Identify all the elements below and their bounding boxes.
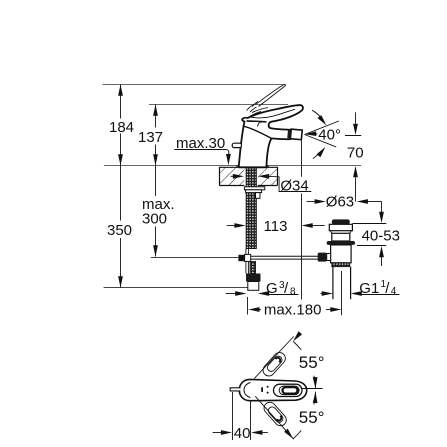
mounting nut [246,190,262,193]
svg-text:Ø63: Ø63 [326,194,354,211]
pull rod knob on left [232,143,241,147]
lever/body joint line [247,121,267,122]
dimension 137/max300 line [155,105,157,257]
lower arc [314,392,316,405]
dimension Ø34 arrows at deck [233,174,244,179]
body outline plan [239,379,306,400]
dimension 70 [355,112,357,123]
svg-text:184: 184 [109,119,134,136]
grip mid [279,386,299,395]
faucet body side view [239,105,303,167]
pull rod below shank [245,249,247,274]
svg-text:8: 8 [290,287,296,298]
spout joint arc [244,383,251,398]
threaded shank [246,167,256,248]
hose nut G3/8 [246,274,261,282]
mounting washer [244,187,264,190]
horizontal rod to waste [251,255,331,257]
deck slab hatched [220,167,278,185]
svg-text:300: 300 [142,211,167,228]
G1 1/4 arrows [321,293,323,295]
dimension 184/350 line [120,85,122,288]
svg-text:137: 137 [138,129,163,146]
svg-text:70: 70 [347,145,364,162]
tailpipe centerline [341,271,343,315]
spout swivel curved arrows [312,110,324,122]
dimension 40 plan [232,392,234,440]
dimension 113 [227,225,235,227]
handle detail lines [249,108,296,127]
grip hole [283,387,298,393]
reference line 350 bottom [104,287,252,289]
spout nub plan [230,388,240,391]
grip outer [274,384,303,396]
reference line max300 bottom [151,257,239,259]
actuator port [327,254,331,261]
faucet base flare [237,166,269,168]
G3/8 arrows [226,293,236,295]
flange seal [327,241,355,245]
40° spout angle annotation [305,121,339,147]
55° swing annotation [254,337,293,379]
reference line top (raised lever height) [103,84,285,86]
tailpipe [332,267,334,300]
indicator tick and dots [261,387,263,392]
neck [331,231,352,234]
svg-text:113: 113 [264,218,288,235]
svg-text:350: 350 [107,222,132,239]
phantom grip upper [261,350,288,378]
dimension 40-53 [381,202,383,213]
actuator knob [318,253,327,262]
spout projection extension line [301,140,303,176]
threads [332,263,350,267]
phantom raised lever [247,85,286,112]
dimension Ø63 [307,201,315,203]
svg-text:40°: 40° [318,126,341,143]
body-spout front edge curve [244,126,271,138]
nut tab [256,193,261,199]
centerline right of grip [301,388,322,390]
reference line handle top [149,104,288,106]
svg-text:55°: 55° [299,353,325,372]
svg-text:40-53: 40-53 [362,228,400,245]
dimension max.180 [247,297,249,315]
svg-text:4: 4 [391,286,397,297]
svg-text:max.180: max.180 [264,302,322,319]
reference line deck level [104,165,361,167]
pop-up waste assembly [318,219,355,315]
upper body [332,233,350,241]
lower body [331,245,352,263]
knob body [329,224,352,230]
aerator [287,129,302,140]
phantom grip lower [262,400,289,428]
hose tail [248,282,259,291]
cross fitting [238,255,244,261]
svg-text:55°: 55° [299,408,325,427]
svg-text:Ø34: Ø34 [280,177,308,194]
knob cap [332,219,350,224]
braided hose [250,262,256,274]
upper arc [314,376,316,389]
svg-text:40: 40 [234,425,251,442]
